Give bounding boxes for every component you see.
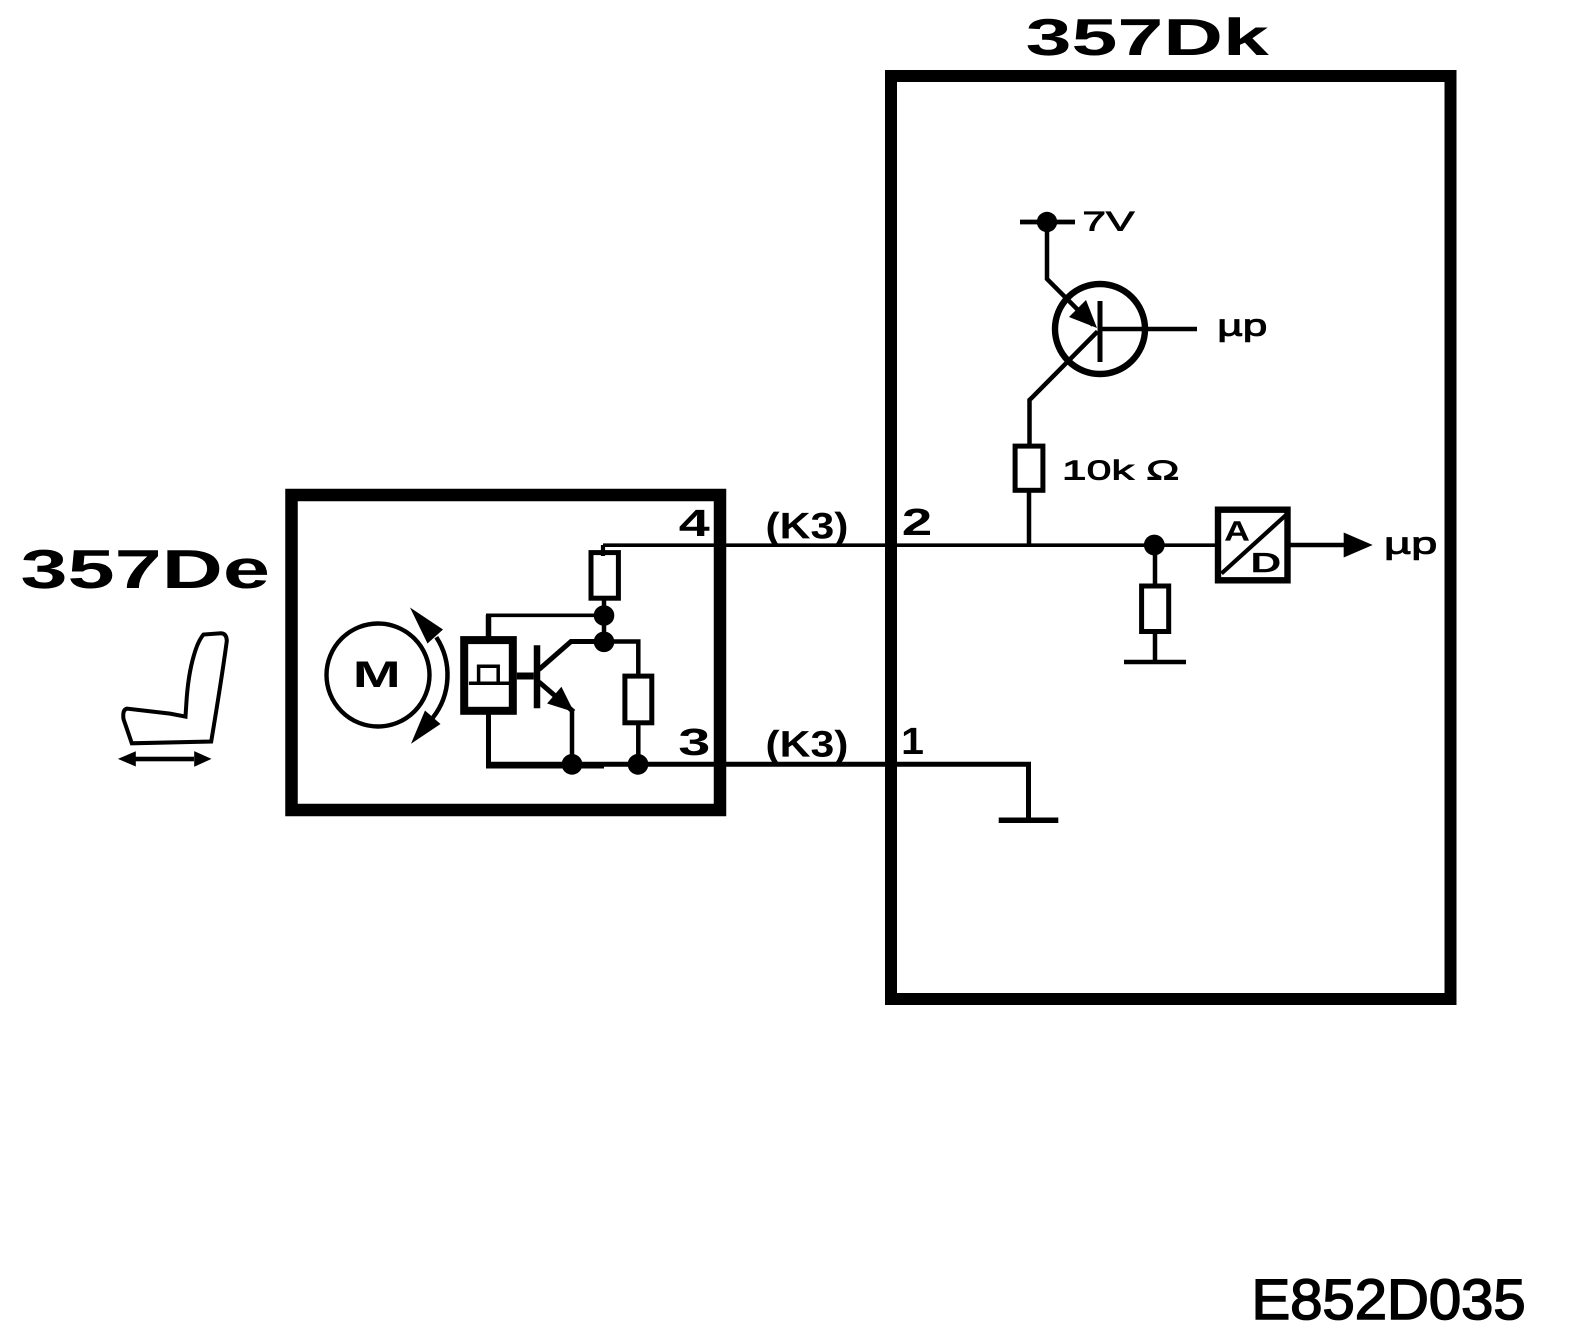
wire pin4 step [601,545,605,556]
wire Q2 base to uP [1100,327,1197,332]
junction dot R2-bottom [628,754,649,775]
A/D label D [1253,553,1279,572]
transistor Q2 circle [1055,284,1145,374]
resistor R3 10k [1015,446,1043,490]
label uP at A/D output [1387,537,1435,559]
7V supply dot [1037,212,1057,232]
A/D label A [1225,521,1249,540]
net label (K3) upper [768,512,847,546]
wire sensor to node A [486,613,604,617]
transistor Q1 bar [534,645,541,708]
wire R4 to ground [1153,630,1158,663]
wire R3 bottom to main wire [1027,488,1032,545]
wire R1 bottom to node B [602,598,607,642]
seat travel arrow [118,751,212,767]
pin label 2 [904,509,930,536]
pulse symbol [479,666,499,683]
wire 7V to Q2 emitter [1047,222,1093,325]
rotation arrowhead upper [410,608,443,644]
ground symbol at R4 [1124,660,1186,665]
node C junction dot [1144,535,1165,556]
label 357De (seat motor unit) [22,550,267,589]
wire sensor top lead [486,615,492,637]
pin label 3 [680,729,709,756]
A/D diagonal [1222,515,1287,574]
transistor Q1 emitter [539,682,574,712]
label 7V [1085,212,1135,231]
node B junction dot [594,632,615,653]
resistor R4 [1142,586,1169,632]
sensor unit box 357De [292,495,721,810]
resistor R1 [591,553,618,599]
wire A/D output [1288,543,1348,548]
seat icon [123,633,227,743]
wire sensor bottom lead [489,715,605,767]
wire node C to R4 [1153,545,1158,588]
rotation arrowhead lower [411,711,441,744]
wire Q2 collector [1030,332,1098,449]
transistor Q1 base lead [517,673,534,680]
ECU box 357Dk [891,76,1451,999]
motor label M [357,662,397,688]
wire Q1 emitter down [570,710,575,766]
transistor Q1 emitter arrowhead [547,687,574,712]
label 357Dk (ECU title) [1028,17,1269,55]
transistor Q1 collector [539,642,604,670]
transistor Q2 emitter arrowhead [1069,300,1097,328]
transistor Q2 bar [1098,301,1103,362]
resistor R2 [625,676,652,723]
figure number E852D035 [1256,1279,1523,1319]
label uP at Q2 [1220,319,1265,341]
pulse symbol baseline [469,682,510,686]
motor M circle [327,624,430,727]
junction dot emitter-bottom [562,754,583,775]
wire bottom line pin3 to pin1 to ground [487,764,1029,818]
A/D output arrowhead [1344,533,1373,558]
7V supply bar [1020,220,1075,225]
A/D converter box U1 [1218,510,1288,581]
node A junction dot [594,605,615,626]
label 10k Ohm [1065,460,1177,480]
wire R2 bottom [636,721,641,766]
ground symbol at pin1 [999,818,1059,824]
hall sensor block [464,640,513,711]
pin label 1 [904,728,923,754]
wire pin4 to AD converter [603,543,1217,547]
pin label 4 [680,510,710,536]
net label (K3) lower [768,730,847,765]
motor rotation arrow arc [433,637,448,718]
wire node B to R2 [604,642,638,679]
